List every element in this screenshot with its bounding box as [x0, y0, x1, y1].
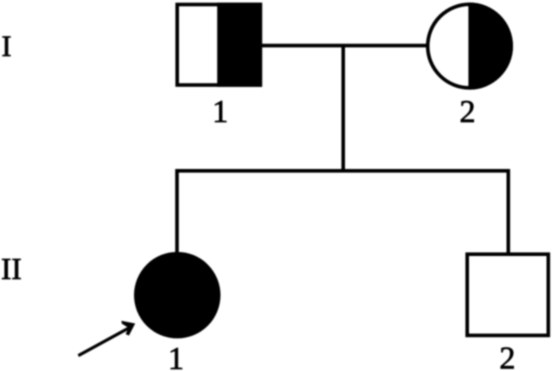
individual II-1: filled circle (affected female, proband)	[136, 254, 219, 337]
wire: sibship line with drops to II-1 and II-2	[177, 171, 508, 254]
svg-text:1: 1	[168, 340, 184, 371]
wire: descent line from marriage to sibship	[341, 46, 345, 171]
svg-text:I: I	[2, 30, 12, 63]
wire: marriage line I-1 to I-2	[260, 44, 428, 48]
proband arrow	[78, 321, 135, 356]
svg-text:1: 1	[212, 93, 228, 129]
individual I-1: half-filled square (carrier male)	[177, 3, 262, 87]
svg-text:2: 2	[460, 93, 476, 129]
svg-text:II: II	[1, 251, 22, 286]
individual I-2: half-filled circle (carrier female)	[428, 2, 515, 91]
individual II-2: empty square (unaffected male)	[467, 254, 548, 335]
svg-text:2: 2	[499, 340, 515, 371]
